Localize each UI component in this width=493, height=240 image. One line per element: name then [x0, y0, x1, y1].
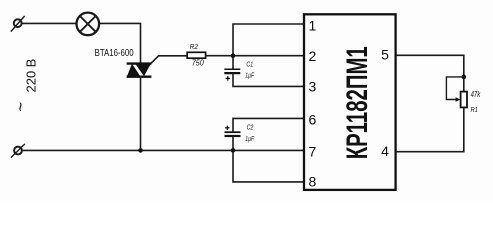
svg-text:КР1182ПМ1: КР1182ПМ1 — [341, 46, 374, 159]
svg-text:5: 5 — [381, 46, 389, 62]
wire: triac gate to R2 — [151, 56, 188, 64]
wire: R1 bottom to IC pin 4 — [396, 107, 464, 151]
svg-text:В: В — [24, 59, 39, 68]
lamp HL1 — [77, 13, 100, 36]
capacitor C1 (electrolytic 1uF) — [224, 69, 240, 80]
terminal X1 (top, ~220V input) — [11, 16, 25, 32]
svg-text:3: 3 — [309, 79, 317, 95]
svg-text:220: 220 — [24, 71, 39, 93]
svg-text:1µF: 1µF — [245, 70, 255, 79]
potentiometer R1 wiper (rheostat connection) — [446, 77, 463, 100]
IC U1 KR1182PM1 box — [304, 14, 396, 190]
svg-text:8: 8 — [309, 173, 317, 189]
svg-text:2: 2 — [309, 48, 317, 64]
junction node: C2 on bottom rail — [231, 148, 236, 153]
svg-text:4: 4 — [381, 143, 389, 159]
svg-text:C2: C2 — [247, 122, 254, 131]
wire: bottom mains rail to IC pin 7 — [22, 149, 303, 151]
wire: R2 to IC pin 2 — [206, 55, 304, 57]
svg-text:6: 6 — [309, 111, 317, 127]
wire: lamp to triac anode (top), corner at x=140.5 — [99, 23, 140, 63]
capacitor C2 (electrolytic 1uF) — [225, 126, 241, 136]
svg-text:BTA16-600: BTA16-600 — [95, 48, 134, 59]
wire: IC pin 6 down to C2 top — [233, 118, 303, 132]
junction node: triac cathode on bottom rail — [138, 148, 143, 153]
svg-text:47k: 47k — [471, 90, 481, 99]
svg-text:1µF: 1µF — [245, 134, 255, 143]
wire: IC pin 5 to R1 top — [396, 55, 464, 91]
wire: C1 bottom to IC pin 3 — [233, 73, 303, 86]
resistor R2 — [187, 52, 205, 58]
svg-text:7: 7 — [309, 144, 317, 160]
junction node: R1 wiper tie — [462, 75, 467, 80]
terminal X2 (bottom, ~220V input) — [11, 144, 25, 158]
potentiometer R1 body — [461, 92, 467, 108]
svg-text:~: ~ — [11, 102, 30, 112]
wire: bottom rail to IC pin 8 — [233, 150, 303, 182]
svg-text:1: 1 — [309, 18, 317, 34]
svg-text:750: 750 — [192, 59, 205, 68]
svg-text:R2: R2 — [190, 42, 199, 51]
wire: IC pin 1 down to C1 top — [233, 24, 303, 69]
wire: C2 bottom to bottom rail — [232, 136, 234, 150]
junction node: gate / C1 / pin2 — [231, 53, 236, 58]
wire: X1 to lamp — [22, 22, 77, 24]
wire: triac bottom to bottom rail — [140, 77, 142, 151]
triac VS1 BTA16-600 — [127, 64, 152, 77]
svg-text:R1: R1 — [471, 105, 478, 114]
svg-text:C1: C1 — [246, 59, 253, 68]
